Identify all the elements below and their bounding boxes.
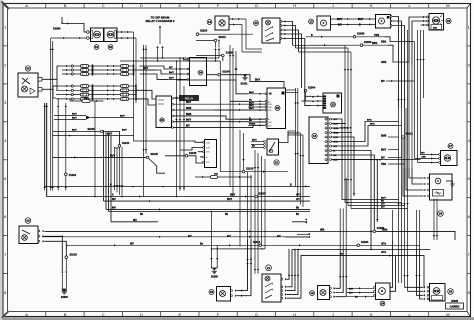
corner scan marks — [2, 2, 10, 10]
ground wires S1003 — [61, 272, 63, 274]
wire bus y245.3 via S1011 — [68, 244, 259, 246]
svg-text:A/Y: A/Y — [188, 235, 192, 238]
svg-text:21: 21 — [267, 266, 271, 270]
svg-text:A: A — [25, 312, 28, 317]
svg-text:H7928: H7928 — [451, 300, 459, 303]
svg-text:Bk/Y: Bk/Y — [358, 19, 364, 21]
fuse bank B bus bars — [134, 65, 137, 101]
ref circle 26 — [446, 18, 451, 23]
pins box 28a — [428, 177, 430, 179]
svg-text:K: K — [370, 3, 373, 8]
svg-text:Y/Bk: Y/Bk — [374, 35, 380, 37]
ref circle 22 — [274, 160, 279, 165]
wire bus y201.1 — [104, 200, 311, 202]
tail lamp unit RH box 28 — [430, 284, 446, 302]
svg-text:H: H — [293, 3, 296, 8]
svg-text:Bk/Y: Bk/Y — [249, 105, 254, 107]
node S1021 — [214, 39, 217, 42]
fuse bank B outputs — [134, 69, 157, 71]
box 28a bottom drops — [433, 199, 435, 241]
wire S1064 to rear — [360, 244, 420, 246]
wire bus y237.5 — [42, 236, 310, 238]
svg-text:G: G — [255, 3, 258, 8]
node S1084 — [53, 22, 63, 30]
fog lamp pins — [439, 154, 441, 156]
branch arrows — [156, 46, 158, 48]
ref circle 14 — [207, 20, 212, 25]
wire bus y61 — [120, 60, 220, 62]
svg-text:RELAY F DIAGRAM 2: RELAY F DIAGRAM 2 — [145, 19, 174, 23]
svg-text:C: C — [102, 312, 105, 317]
svg-text:J: J — [332, 312, 334, 317]
svg-text:N/V: N/V — [130, 243, 134, 245]
node S1046 — [185, 155, 188, 158]
multi-plug wire labels — [334, 119, 340, 162]
RH headlamp box — [429, 14, 444, 31]
svg-text:B/Y: B/Y — [381, 158, 385, 160]
fuse bank B fuses — [121, 65, 129, 68]
node S1020 — [222, 54, 225, 57]
grid numbers left band — [3, 24, 8, 295]
switch LH pins — [38, 78, 42, 82]
svg-text:A/Tn: A/Tn — [381, 242, 387, 245]
loom arrows mid right — [340, 127, 342, 129]
relay output wires — [174, 97, 180, 99]
svg-text:23: 23 — [331, 103, 335, 107]
svg-text:12A: 12A — [268, 93, 272, 96]
svg-text:Bk/Y: Bk/Y — [122, 130, 127, 132]
svg-text:Bk/Y: Bk/Y — [186, 120, 192, 122]
multi-plug outgoing wires group B — [332, 137, 355, 196]
ref circle 18 — [209, 290, 214, 295]
svg-text:A/Y: A/Y — [277, 235, 281, 238]
node S1015 — [242, 170, 245, 173]
svg-text:Bk/Y: Bk/Y — [120, 116, 125, 118]
svg-text:S1004: S1004 — [308, 87, 316, 90]
wires lamp 19 — [330, 287, 332, 289]
svg-text:S1084: S1084 — [53, 27, 61, 31]
svg-text:13C: 13C — [206, 162, 210, 164]
wires into central unit from looms — [177, 80, 249, 94]
wire arrow up to relay F — [159, 26, 161, 28]
svg-text:13B: 13B — [268, 104, 272, 106]
hazard flasher switch box 22 — [267, 139, 279, 155]
svg-text:30: 30 — [26, 67, 30, 71]
wires from switch 29 — [45, 230, 212, 232]
svg-text:N/V: N/V — [112, 199, 116, 201]
dim-dip pin wires — [184, 58, 188, 60]
wire bus y209.4 — [106, 208, 310, 210]
svg-text:A: A — [25, 3, 28, 8]
verticals right of unit 25 — [300, 133, 302, 205]
wires right looms to fog lamp — [421, 154, 441, 156]
svg-text:S1044: S1044 — [122, 142, 130, 145]
svg-text:29: 29 — [26, 219, 30, 223]
svg-text:S1046: S1046 — [189, 152, 197, 155]
svg-text:Bk/B: Bk/B — [381, 136, 387, 138]
wire bends into dim-dip unit — [183, 57, 185, 59]
ref circle 19 — [310, 291, 315, 296]
ref circle 24 — [380, 301, 385, 306]
svg-text:13: 13 — [309, 20, 313, 24]
ground S1001 — [244, 74, 246, 76]
pins lamp 18 — [231, 290, 233, 292]
node S1108 — [196, 33, 199, 36]
grid letters top band — [25, 3, 449, 8]
wires S1046 — [165, 155, 185, 157]
svg-text:13D: 13D — [206, 152, 210, 154]
svg-text:S1001: S1001 — [241, 82, 249, 85]
loom verticals x143-146 — [143, 45, 145, 197]
svg-text:T/Bk: T/Bk — [381, 164, 387, 166]
svg-text:RELAY: RELAY — [185, 96, 194, 100]
svg-text:B: B — [64, 312, 67, 317]
loom center verticals — [219, 61, 221, 172]
relay unit box 33 — [156, 96, 172, 128]
loom verticals above lamp 19 — [339, 209, 341, 251]
svg-text:26: 26 — [447, 19, 451, 23]
number plate lamp box 18 — [217, 287, 231, 302]
ref circle 13 — [309, 19, 314, 24]
wires into box 17 — [134, 141, 203, 142]
fuse bank A fuses — [81, 65, 89, 68]
vertical feeds switch 21 — [247, 240, 249, 291]
multi-plug outgoing wires group A — [332, 119, 399, 200]
svg-text:Bk/Y: Bk/Y — [72, 114, 77, 116]
node S1063 — [360, 44, 363, 47]
svg-text:Bk/Y: Bk/Y — [252, 140, 257, 142]
svg-text:A/Y: A/Y — [381, 203, 385, 206]
connector box 17 pins — [205, 140, 217, 168]
inline fuse top left — [70, 100, 104, 102]
loom verticals col K drop — [398, 108, 400, 283]
svg-text:S/Bk: S/Bk — [381, 42, 387, 44]
svg-text:S1024: S1024 — [222, 71, 230, 74]
svg-text:Bk/B: Bk/B — [186, 114, 192, 116]
main lighting switch box — [262, 18, 280, 43]
svg-text:N/V: N/V — [133, 220, 137, 222]
vertical feed pair bottom-left — [50, 38, 52, 191]
svg-text:27: 27 — [449, 144, 453, 148]
ref circle 20 — [254, 21, 259, 26]
wire bus y231.4 via S1006 — [212, 230, 374, 232]
svg-text:M: M — [446, 312, 449, 317]
svg-text:19: 19 — [310, 291, 314, 295]
pins lamp 24 — [374, 286, 376, 288]
wires lamp15 drop to loom — [392, 17, 399, 109]
wire main beam feed — [51, 37, 87, 39]
svg-text:31: 31 — [95, 45, 99, 49]
rear lamp cluster box 28a — [430, 174, 453, 200]
svg-text:Bk/Y: Bk/Y — [186, 102, 192, 104]
svg-text:Bk/Y: Bk/Y — [255, 80, 261, 82]
wire bus y248.9 — [212, 248, 266, 250]
wire from S1084 to headlamp feed — [61, 17, 63, 24]
svg-text:Bk/Y: Bk/Y — [337, 19, 343, 21]
ref circle 21 — [266, 265, 272, 271]
headlamp unit L1 box — [91, 28, 104, 42]
wire bus y52 — [299, 51, 352, 53]
node S1045b — [146, 156, 149, 159]
pins lamp 28 — [427, 286, 429, 288]
switch output wires drop — [289, 22, 293, 46]
svg-text:t/Bk: t/Bk — [320, 228, 325, 231]
rear lamp RH box 24 — [376, 283, 391, 300]
svg-text:28: 28 — [439, 212, 443, 216]
svg-text:D: D — [140, 312, 143, 317]
svg-text:S1063: S1063 — [364, 41, 372, 44]
merge wires dip beam — [54, 115, 86, 117]
svg-text:Bk/Y: Bk/Y — [249, 92, 254, 94]
pins lamp 15 — [390, 16, 392, 18]
svg-text:G: G — [255, 312, 258, 317]
ref circle 27 — [448, 144, 453, 149]
svg-text:A/Y: A/Y — [296, 198, 300, 201]
svg-text:10A: 10A — [84, 97, 88, 100]
wire fuse inline — [195, 176, 252, 178]
pins switch 21 — [281, 278, 283, 280]
vertical loom right of lamp15 — [414, 42, 416, 99]
wire bus y34.2 — [199, 33, 253, 35]
rear lamp feed arrows right — [308, 233, 310, 235]
wires from S1021 down — [215, 42, 217, 48]
S1044 fanout verticals — [114, 147, 116, 190]
hazard switch wires — [311, 95, 323, 97]
svg-text:36A: 36A — [433, 27, 437, 30]
svg-text:S1029: S1029 — [70, 254, 78, 257]
dim-dip pins left — [187, 59, 189, 61]
svg-text:12B: 12B — [206, 148, 210, 150]
svg-text:B/Y: B/Y — [338, 25, 342, 27]
wire stubs into headlamp LH — [89, 31, 91, 33]
svg-text:CAWRD: CAWRD — [450, 305, 460, 309]
vertical feeds col A lower — [44, 103, 46, 191]
wire bus y36.8 — [306, 36, 353, 38]
wires from headlamp L2 to junction bars — [117, 31, 134, 33]
svg-text:B/Bk: B/Bk — [372, 43, 378, 45]
node S1044 — [118, 145, 121, 148]
svg-text:S1011: S1011 — [253, 241, 261, 244]
loom verticals col F — [239, 130, 241, 247]
wires from switch 21 up — [287, 249, 289, 279]
rear lamp LH box 19 — [318, 286, 330, 300]
svg-text:B/Y: B/Y — [186, 126, 190, 128]
wire bus y196.5 via S1007 — [50, 196, 255, 198]
ref circle 28 below — [438, 211, 444, 217]
multi-plug pin column — [325, 118, 332, 161]
svg-text:S1007: S1007 — [259, 192, 267, 195]
loom center-left verticals — [176, 61, 178, 197]
svg-text:D: D — [140, 3, 143, 8]
wire bus y211.5 — [109, 211, 311, 213]
svg-text:S1065: S1065 — [357, 33, 365, 36]
svg-text:A/Bk: A/Bk — [382, 228, 388, 231]
svg-text:E: E — [178, 3, 181, 8]
grid numbers right band — [467, 24, 471, 295]
svg-text:24: 24 — [381, 302, 385, 306]
wire bus y48 — [296, 47, 349, 49]
lamp unit box 14 — [215, 16, 229, 30]
ref circle 31 — [94, 45, 99, 50]
central control unit box 25 — [267, 88, 286, 129]
ref circle 32 — [108, 45, 113, 50]
ref circle 29 — [25, 218, 31, 224]
fuse bank A feeds — [62, 65, 81, 67]
svg-text:Bk/Bk: Bk/Bk — [249, 124, 256, 126]
svg-text:R/Y: R/Y — [421, 153, 425, 155]
svg-text:S1005: S1005 — [211, 276, 219, 279]
loom verticals col G — [254, 150, 256, 274]
central unit pins left — [265, 93, 267, 95]
headlamp unit L2 box — [104, 28, 117, 42]
wires fuse A to fuse B — [93, 65, 121, 67]
wire bus y186.5 — [46, 186, 310, 188]
svg-text:N/V: N/V — [112, 208, 116, 210]
wire drop to fuse bank B — [133, 32, 135, 141]
svg-text:H: H — [293, 312, 296, 317]
svg-text:14: 14 — [208, 20, 212, 24]
wires lamp 24 up — [390, 240, 393, 287]
switch pins right — [280, 21, 282, 23]
svg-text:C: C — [102, 3, 105, 8]
svg-text:20: 20 — [254, 21, 258, 25]
ground at box 28a — [450, 181, 454, 187]
svg-text:Bk/Y: Bk/Y — [72, 130, 77, 132]
svg-text:13E: 13E — [268, 107, 272, 109]
svg-text:S1023: S1023 — [69, 174, 77, 177]
central unit pin wires left — [248, 93, 265, 95]
svg-text:22: 22 — [275, 161, 279, 165]
svg-text:28: 28 — [449, 290, 453, 294]
wire bus y45.2 — [310, 44, 360, 46]
ground S1003 — [62, 289, 66, 292]
ground S1005 — [212, 268, 216, 271]
svg-text:M: M — [446, 3, 449, 8]
vertical fuse bar drop — [94, 100, 96, 196]
svg-text:B: B — [64, 3, 67, 8]
RH headlamp pin wires — [427, 16, 429, 18]
wire bus y135.5 — [53, 135, 134, 137]
node S1029 — [65, 256, 68, 259]
switch feed verticals drop to rear buses — [344, 45, 346, 202]
svg-text:A/Y: A/Y — [381, 206, 385, 209]
pins switch 22 — [264, 141, 266, 143]
central unit right verticals — [295, 88, 297, 187]
svg-text:13K: 13K — [268, 122, 272, 124]
svg-text:33: 33 — [160, 118, 164, 122]
rear switch box 29 — [19, 226, 38, 244]
node S1045 — [53, 131, 101, 133]
node S1064 — [357, 244, 360, 247]
svg-text:A/Y: A/Y — [296, 194, 300, 197]
dim-dip unit box 34 — [190, 58, 207, 86]
svg-text:+/Bk: +/Bk — [421, 157, 426, 159]
part number box — [446, 303, 464, 309]
node S1004 — [304, 89, 307, 92]
wire S1024 to central unit — [221, 75, 284, 88]
svg-text:18: 18 — [210, 290, 214, 294]
svg-text:32: 32 — [109, 45, 113, 49]
ground drop S1005 — [211, 212, 213, 267]
grid letters bottom band — [25, 312, 449, 317]
svg-text:S1015: S1015 — [246, 168, 254, 171]
node S1023 — [65, 103, 67, 173]
svg-text:Bk/Y: Bk/Y — [230, 195, 236, 197]
svg-text:B/Y: B/Y — [169, 67, 173, 69]
svg-text:S1108: S1108 — [200, 30, 208, 33]
node S1024 — [218, 73, 221, 76]
svg-text:A/Bk: A/Bk — [381, 61, 387, 64]
wire bus y221.8 segments — [111, 221, 158, 223]
svg-text:E: E — [178, 312, 181, 317]
wires fuse B to dim-dip — [140, 66, 169, 69]
svg-text:34: 34 — [199, 71, 203, 75]
ref circle 30 — [25, 66, 30, 71]
svg-text:B/Tn: B/Tn — [370, 124, 376, 126]
front fog lamp box 27 — [441, 151, 458, 166]
svg-text:S1064: S1064 — [361, 241, 369, 244]
ref circle 28b — [448, 289, 454, 295]
svg-text:S1021: S1021 — [219, 36, 227, 39]
side lamp box 13 — [317, 16, 331, 30]
svg-text:12A: 12A — [206, 141, 210, 144]
wire bus y45.3 — [293, 44, 346, 46]
rear lamp switch box 21 — [262, 274, 281, 302]
connector unit box 16 — [309, 117, 328, 164]
svg-text:S1045: S1045 — [151, 153, 159, 156]
fuse bank A bus bars — [92, 65, 94, 101]
node S1065 — [353, 36, 356, 39]
svg-text:Bk/Y: Bk/Y — [381, 150, 387, 152]
svg-text:B/Tn: B/Tn — [367, 120, 373, 122]
svg-text:S1003: S1003 — [61, 296, 69, 299]
svg-text:Bk/Y: Bk/Y — [249, 102, 254, 104]
svg-text:S1045: S1045 — [88, 128, 96, 131]
svg-text:J: J — [332, 3, 334, 8]
side repeater lamp box 15 — [376, 15, 391, 29]
svg-text:Bk/Y: Bk/Y — [169, 72, 174, 74]
main light switch LH box — [18, 73, 38, 97]
svg-text:Bk/Y: Bk/Y — [169, 77, 174, 79]
svg-text:25: 25 — [276, 106, 280, 110]
svg-text:Bk/Y: Bk/Y — [381, 198, 386, 200]
wires lamp13 to lamp15 — [331, 18, 376, 20]
svg-text:Bk/Y: Bk/Y — [227, 199, 233, 201]
svg-text:Bk/Y: Bk/Y — [72, 118, 77, 120]
hazard switch box 23 — [323, 93, 342, 113]
svg-text:Bk/B: Bk/B — [186, 108, 192, 110]
svg-text:A/Y: A/Y — [227, 235, 231, 238]
loom join right — [402, 138, 404, 168]
node S1012 — [402, 136, 405, 139]
relay pins right — [172, 97, 174, 99]
svg-text:B/Y: B/Y — [381, 81, 385, 83]
svg-text:Bk/Y: Bk/Y — [249, 108, 254, 110]
pins switch 29 — [38, 230, 40, 232]
wires switch LH to fuse bus — [42, 66, 62, 79]
wires from lamp 14 to switch — [229, 18, 246, 20]
svg-text:K: K — [370, 312, 373, 317]
relay label box — [180, 96, 199, 101]
svg-text:A/Tn: A/Tn — [381, 251, 387, 254]
svg-text:Bk/Y: Bk/Y — [107, 134, 113, 136]
wire S1015 bus y171.7 — [220, 171, 288, 173]
vertical feed x58 — [57, 98, 59, 191]
svg-text:13J: 13J — [268, 125, 271, 127]
svg-text:16: 16 — [313, 134, 317, 138]
connector circles headlamp LH — [87, 31, 90, 34]
multi-plug tail wire — [332, 159, 421, 161]
